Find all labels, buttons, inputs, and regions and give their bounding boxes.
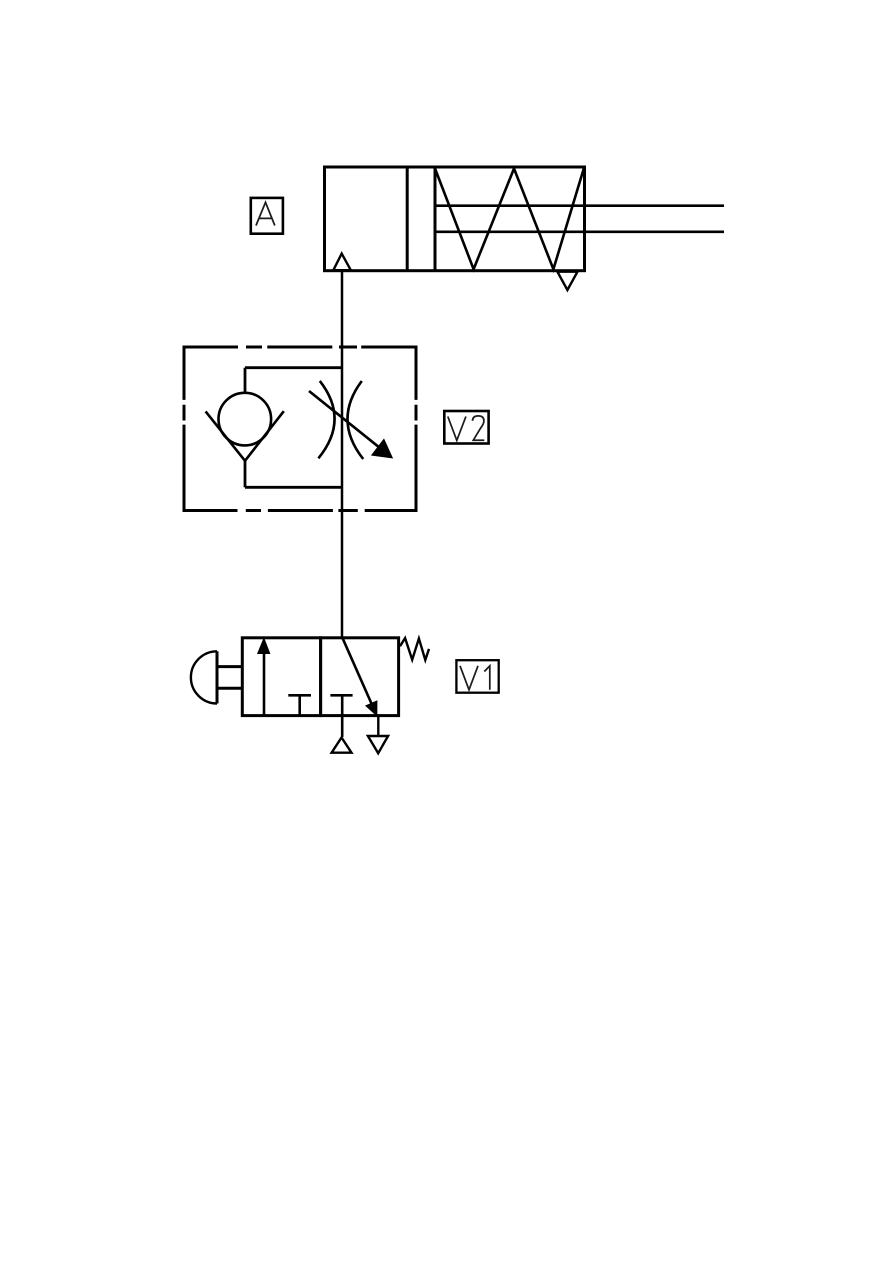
V2 bypass left lower segment: [244, 461, 247, 488]
V2 bypass rectangle top: [245, 366, 342, 369]
V1 right position exhaust arrow head: [366, 701, 377, 716]
flow control V2 enclosure dashed right: [415, 346, 418, 513]
cylinder A piston line 1: [406, 167, 409, 271]
V2 throttle right arc: [347, 381, 363, 459]
V1 exhaust line: [377, 716, 379, 736]
V1 exhaust triangle: [368, 736, 388, 753]
V2 bypass left upper segment: [244, 368, 247, 394]
V1 left position flow arrow head: [258, 638, 270, 653]
V1 push button dome: [191, 651, 217, 703]
V2 adjustment arrow shaft: [309, 391, 379, 447]
cylinder A exhaust triangle: [557, 272, 577, 290]
V1 right position exhaust arrow shaft: [342, 638, 371, 704]
cylinder A port triangle: [333, 254, 351, 271]
cylinder A rod upper line: [435, 204, 724, 207]
label text V1: [460, 666, 490, 690]
label box V1: [456, 660, 498, 693]
V1 left position blocked port T: [288, 695, 311, 715]
V1 push button plate: [216, 651, 219, 703]
cylinder A body: [325, 167, 585, 271]
V1 right position blocked port T: [330, 694, 352, 697]
label text V2: [448, 416, 485, 441]
V2 bypass rectangle bottom: [245, 486, 342, 489]
V1 push button stem upper: [217, 665, 242, 668]
valve V1 body left box: [242, 638, 320, 716]
wire cylinder to valve V1: [341, 271, 344, 638]
label text A: [256, 202, 275, 225]
V1 supply stem line: [341, 695, 344, 737]
label box V2: [444, 411, 488, 444]
flow control V2 enclosure dashed bottom: [184, 509, 416, 512]
flow control V2 enclosure dashed top: [184, 346, 416, 349]
V2 check valve seat: [206, 411, 284, 461]
V1 left position flow arrow shaft: [263, 652, 266, 716]
cylinder A piston line 2: [434, 167, 437, 271]
V1 push button stem lower: [217, 687, 242, 690]
label box A: [251, 198, 283, 234]
valve V1 body right box: [321, 638, 399, 716]
V2 check valve ball: [219, 393, 272, 446]
cylinder A rod lower line: [435, 231, 724, 234]
V2 throttle left arc: [318, 381, 334, 458]
V1 supply triangle: [332, 738, 352, 753]
V2 adjustment arrow head: [372, 439, 393, 458]
cylinder A return spring: [435, 169, 584, 270]
flow control V2 enclosure dashed left: [183, 346, 186, 513]
V1 return spring: [400, 638, 429, 660]
